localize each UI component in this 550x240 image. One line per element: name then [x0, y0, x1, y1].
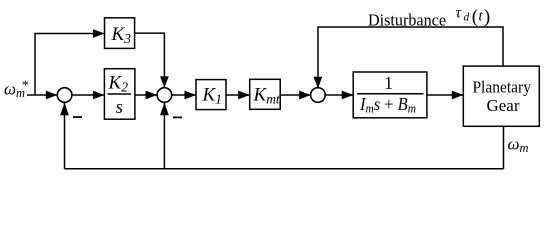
- block 1/(Im s + Bm): [353, 72, 427, 118]
- arrowhead: into K3: [93, 29, 105, 38]
- arrowhead: into Kmt: [238, 91, 250, 100]
- wire: feedback riser to S2: [163, 103, 165, 169]
- arrowhead: input into S1: [46, 91, 58, 100]
- wire: Planetary Gear output down: [503, 126, 505, 169]
- summing junction S3: [311, 88, 326, 103]
- wire: branch up to K3: [35, 34, 104, 96]
- svg-text:(: (: [472, 6, 478, 27]
- arrowhead: into K1: [185, 91, 197, 100]
- svg-text:s: s: [116, 97, 123, 118]
- summing junction S2: [157, 88, 172, 103]
- block Planetary Gear: [463, 66, 539, 126]
- arrowhead: into Planetary Gear: [452, 91, 464, 100]
- wire: disturbance path from Planetary Gear top to S3: [318, 27, 503, 89]
- svg-text:d: d: [464, 12, 470, 24]
- wire: K2/s to S2: [135, 94, 157, 96]
- arrowhead: feedback up into S1: [60, 103, 69, 116]
- block Kmt: [250, 79, 281, 109]
- arrowhead: into inertia block: [342, 91, 354, 100]
- wire: K3 output down into S2: [135, 33, 165, 88]
- wire: K1 to Kmt: [226, 94, 250, 96]
- arrowhead: disturbance down into S3: [314, 77, 323, 89]
- wire: bottom feedback: [65, 168, 504, 170]
- minus sign at S2: [173, 117, 182, 119]
- wire: S3 to inertia block: [325, 94, 353, 96]
- arrowhead: feedback up into S2: [160, 103, 169, 116]
- svg-text:*: *: [22, 79, 29, 94]
- svg-text:): ): [484, 6, 490, 27]
- block K3: [105, 18, 135, 49]
- wire: S2 to K1: [172, 94, 196, 96]
- arrowhead: into K2/s: [93, 91, 105, 100]
- arrowhead: K3 output down into S2: [160, 76, 169, 88]
- wire: Kmt to S3: [280, 94, 311, 96]
- svg-text:1: 1: [384, 73, 393, 93]
- wire: S1 to K2/s: [72, 94, 105, 96]
- block K1: [196, 80, 226, 110]
- svg-text:Planetary: Planetary: [472, 77, 531, 96]
- arrowhead: into S2 from K2/s: [146, 91, 158, 100]
- summing junction S1: [57, 88, 72, 103]
- arrowhead: into S3 from Kmt: [299, 91, 311, 100]
- block K2/s: [104, 69, 134, 120]
- wire: inertia block to Planetary Gear: [427, 94, 463, 96]
- wire: feedback riser to S1: [64, 103, 66, 169]
- svg-text:Gear: Gear: [486, 96, 519, 115]
- minus sign at S1: [73, 116, 82, 118]
- svg-text:Disturbance: Disturbance: [368, 11, 446, 30]
- wire: reference input: [27, 94, 58, 96]
